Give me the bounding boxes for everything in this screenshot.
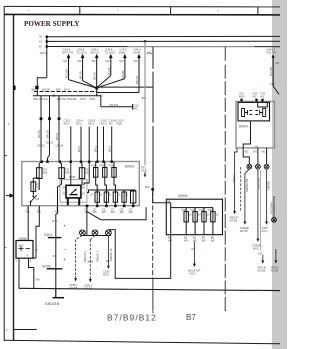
svg-text:K139: K139 [69,175,76,179]
svg-text:W2: W2 [253,150,257,154]
labels above relay box pins [239,91,266,95]
wire trunk vertical from bus taps [46,37,48,78]
svg-text:SW: SW [275,61,280,65]
svg-text:W2: W2 [245,150,249,154]
relay K139 outer housing [60,180,87,203]
svg-text:W5: W5 [93,210,97,214]
wire exit battery feed [56,206,58,237]
inline labels on entry wires [37,119,124,148]
wire diagonal col1 to junction [69,80,97,88]
svg-text:F34: F34 [91,164,96,168]
right edge drop wire [273,196,275,217]
relay coil feed wire [71,162,89,186]
svg-text:30A: 30A [65,171,70,175]
ground G01B plate [47,268,63,270]
svg-text:W5: W5 [193,238,197,242]
svg-text:W8-R: W8-R [40,51,47,55]
wire diagonal col4 to junction [97,76,111,88]
relay sub-box black [238,102,270,121]
svg-text:+: + [26,254,28,258]
terminal end bar [132,104,134,110]
harness tick mark [53,94,55,97]
power bus 1 (top) [47,35,280,37]
fuse F39 [212,208,214,235]
right terminal up arrow [272,54,275,58]
svg-text:W5: W5 [102,210,106,214]
relay K139 contact bar [70,194,78,196]
fuse F5 (row1) [105,162,107,193]
X906 internal symbol [19,246,31,251]
wire feed to lamp sockets [86,207,88,235]
lamp socket L2 [92,230,98,236]
svg-text:U9013: U9013 [46,141,54,145]
svg-text:C10: C10 [270,82,275,86]
wire trunk elbow [37,78,47,96]
divider end dot [152,312,153,313]
svg-text:X90LB-1: X90LB-1 [96,251,100,262]
svg-text:G01B: G01B [42,264,51,268]
fuse F1 (row1) [37,162,117,206]
relay K139 legs [68,198,79,206]
lamp socket L1 [80,230,112,236]
frame tick mark left mid [13,86,16,91]
svg-text:F37: F37 [190,208,195,212]
svg-text:W0.5: W0.5 [77,145,81,152]
fuse box 30905 outline [166,199,222,235]
ground stub below bus [55,289,57,298]
svg-text:30G: 30G [145,185,150,189]
relay R1 symbol [242,109,252,117]
svg-text:W0: W0 [106,259,110,263]
fuse F10 (row2) [114,190,116,192]
svg-text:SW: SW [77,59,82,63]
svg-text:SW: SW [63,59,68,63]
svg-text:W1.25R: W1.25R [65,69,69,78]
svg-text:X90RA-5B: X90RA-5B [245,179,249,192]
arrow terminal column 2 [82,58,84,81]
relay box 30904 grey outline [236,101,275,147]
svg-text:30A: 30A [43,171,48,175]
svg-text:W5: W5 [120,210,124,214]
30905 exit labels [168,235,214,239]
svg-text:W5: W5 [211,238,215,242]
svg-text:G201: G201 [44,233,52,237]
svg-text:W0.5: W0.5 [88,122,95,126]
trunk junction blob [35,86,38,89]
svg-text:X90LA-1: X90LA-1 [83,251,87,262]
svg-text:W0.5: W0.5 [64,122,71,126]
right edge lamp socket [272,217,277,222]
30905 fuse labels [182,208,214,212]
svg-text:30903: 30903 [125,165,135,169]
30905 centre drop wire with arrow [193,242,195,265]
svg-text:B60 W0.5-R: B60 W0.5-R [34,97,48,101]
svg-text:W05: W05 [88,259,94,263]
rotated labels along entry wires [37,130,112,152]
exit pads under fuse box [86,205,135,208]
arrow terminal column 6 [138,58,140,93]
svg-text:7A: 7A [37,185,40,189]
drop wire rd with arrow [266,169,268,222]
svg-text:W0.5: W0.5 [253,246,260,250]
svg-text:B2: B2 [134,106,138,110]
svg-text:W2: W2 [260,94,264,98]
wire size labels beside arrow shafts [63,59,138,63]
svg-text:W5: W5 [129,210,133,214]
svg-text:SW: SW [105,59,110,63]
wires entering fuse box from connector pads [71,127,112,162]
svg-text:BAJ-01: BAJ-01 [91,50,100,54]
svg-text:W2R: W2R [116,122,122,126]
arrow terminal column 3 [96,58,98,88]
page-ref labels above arrow terminals (6 columns) [62,48,141,55]
drop wire rc with arrow [257,169,259,239]
svg-text:M12: M12 [19,243,25,247]
lamp socket link bar [81,235,112,237]
svg-text:W2: W2 [262,150,266,154]
viewer grey margin band right [272,0,287,349]
svg-text:W0.5: W0.5 [108,145,112,152]
ground GND31B plate [53,297,64,299]
svg-text:SW: SW [35,197,40,201]
svg-text:W2: W2 [109,122,113,126]
pads on fuse box top edge [41,161,113,163]
drop wire rb with arrow [245,169,249,222]
fuse F12 (row2) [132,190,134,191]
wire exit left 1 down to X906 [27,206,29,241]
svg-text:B60: B60 [32,88,37,92]
fuse F11 (row2) [123,190,125,192]
svg-text:W0.5R: W0.5R [69,97,77,101]
svg-text:W0.5: W0.5 [80,97,87,101]
svg-text:X90A-B5: X90A-B5 [256,177,260,189]
svg-text:B60: B60 [56,88,61,92]
svg-text:B7/B9/B12: B7/B9/B12 [107,312,157,322]
svg-text:U9014: U9014 [56,144,64,148]
wire diagonal col2 to junction [83,81,97,88]
svg-text:MAIN: MAIN [119,50,126,54]
fuse value labels row2 [90,193,129,197]
svg-text:W0.5: W0.5 [103,273,110,277]
svg-text:30904: 30904 [239,124,248,128]
wire inside 30904 down [243,121,250,151]
header band divider 1 [79,7,81,15]
svg-text:SW: SW [119,59,124,63]
svg-text:W0.5R: W0.5R [79,71,83,79]
svg-text:W0.5B: W0.5B [240,229,248,233]
header band divider 3 [257,7,259,15]
svg-text:W0.5R: W0.5R [93,72,97,80]
wire col6 elbow to junction row [97,92,139,94]
svg-text:POWER SUPPLY: POWER SUPPLY [24,19,80,28]
left margin tick upper [4,155,7,157]
wire junction down jog [97,88,101,107]
left margin tick lower [4,247,6,249]
rotated connector labels right group [232,173,270,192]
grey feeder wire from bus2 [144,41,146,165]
svg-text:B7: B7 [186,313,196,322]
svg-text:F35: F35 [100,164,105,168]
exit pin labels under fuse box [27,206,133,211]
svg-text:W0.5B: W0.5B [70,286,78,290]
dashed drop from socket L1 with arrow [76,235,83,276]
svg-text:F36: F36 [182,208,187,212]
feed wire into 30905 [153,189,167,202]
wire diagonal col5 to junction [97,79,125,88]
node feeder junction dot [151,188,154,191]
svg-text:SW: SW [91,59,96,63]
svg-text:W3: W3 [168,238,172,242]
relay R2 symbol [256,109,266,117]
node bus1 tap dot [46,35,49,38]
svg-text:W2R: W2R [239,94,245,98]
fuse F6 (row1) [114,162,115,193]
wire junction horizontal to right feeder [97,86,153,88]
power bus 2 (middle) [47,40,280,42]
lamp socket L3 [106,230,112,236]
svg-text:W0.5L: W0.5L [55,132,59,140]
relay pin marks [63,186,86,196]
svg-text:F38: F38 [199,208,204,212]
fuse F4 (row1) [96,162,98,193]
header band bottom rule / inner frame top [4,13,280,16]
header band divider 2 [170,7,172,15]
svg-text:W-B: W-B [52,219,57,223]
svg-text:BACKW05: BACKW05 [270,201,274,214]
ground bus bottom [19,288,280,290]
svg-text:W1.25R: W1.25R [269,67,273,76]
harness hanger wire 3 [58,96,60,162]
node bus3 tap dot [46,45,49,48]
right diagonal wire [273,86,279,94]
svg-text:W0.5R: W0.5R [37,130,41,138]
svg-text:W0.5B: W0.5B [271,269,279,273]
svg-text:+: + [63,257,66,262]
svg-text:30905: 30905 [178,194,188,198]
bottom right arrow 1 [262,255,264,261]
svg-text:TC.MOD: TC.MOD [105,50,115,54]
divider end dot right [225,310,226,311]
svg-text:W5: W5 [184,238,188,242]
fuse F7 small (left column) [31,178,39,195]
svg-text:IGN.SW: IGN.SW [267,50,277,54]
fuse box 30903 outline [22,162,140,206]
svg-text:W5: W5 [202,238,206,242]
drop from socket L3 with arrow [107,235,109,263]
relay box top pins [242,100,263,103]
fuse F8 (row2) [95,190,136,206]
relay K139 body [66,185,81,198]
connector squiggle symbol [147,52,151,54]
switch contact dots [32,196,34,198]
svg-text:BATT+30: BATT+30 [62,50,73,54]
svg-text:X90LB-10: X90LB-10 [109,248,113,261]
black feeder wire from bus3 (with inline connector gaps) [152,47,154,190]
battery column wire [55,237,57,298]
svg-text:−: − [64,247,67,252]
svg-text:W8: W8 [36,277,40,281]
node bus2 tap dot [46,40,49,43]
harness hanger wire 1 [40,96,42,162]
dashed bracket right group [240,167,242,212]
svg-text:W0.5: W0.5 [189,272,196,276]
svg-text:W05: W05 [98,93,104,97]
svg-text:B60 W0.5: B60 W0.5 [57,97,69,101]
svg-text:W0.5-R: W0.5-R [110,103,119,107]
solid harness line [33,95,97,97]
svg-text:W0.5G: W0.5G [135,76,139,84]
svg-text:W-R: W-R [142,169,147,173]
grey harness wire right [260,170,262,251]
svg-text:W1.25: W1.25 [107,67,111,75]
component X906 box [16,241,33,259]
svg-text:W0.5: W0.5 [100,122,107,126]
drop wire ra with arrow [235,148,237,211]
fuse value labels row1 [43,164,114,175]
harness hanger wire 2 [48,96,50,162]
svg-text:W2: W2 [252,94,256,98]
svg-text:U9012: U9012 [37,144,45,148]
grey feeder end arrow [144,172,146,175]
fuse F37 [194,208,196,235]
arrow terminal column 1 [67,54,141,92]
svg-text:W0.5: W0.5 [261,229,268,233]
switch contact symbol [30,195,36,206]
internal distribution bus [87,190,136,193]
outer page border bottom [4,340,280,344]
inner frame left border [13,15,15,340]
arrow terminal column 4 [110,58,112,76]
fuse F9 (row2) [105,190,107,192]
connector pads on entry wires [40,117,61,120]
lamp socket R2 [256,164,261,169]
rotated connector labels beside socket drops [83,248,113,262]
ground G201 plate [48,237,62,239]
node grey-line tap dot on bus2 [144,40,147,43]
svg-text:W0.5: W0.5 [76,122,83,126]
dashed drop from socket L2 with arrow [90,235,95,276]
lamp socket R3 [264,164,269,169]
svg-text:SW: SW [134,59,139,63]
svg-text:W0.5B: W0.5B [229,219,237,223]
svg-text:W0.5: W0.5 [64,88,71,92]
wire return loop from 30905 [108,230,170,279]
svg-text:F36: F36 [109,164,114,168]
rotated wire colour labels along shafts [65,67,140,84]
bottom right arrow 2 [275,249,277,261]
svg-text:W0.5B: W0.5B [46,130,50,138]
wire under-box link diagonal [87,207,146,219]
relay sub-box notch [258,102,268,107]
section divider dash-dot right [224,47,226,310]
X906 pin wires down [19,258,34,289]
dashed harness line [34,91,97,93]
30905 internal bus [166,203,213,208]
svg-text:W0.5B: W0.5B [257,269,265,273]
30905 straight drop [170,208,172,235]
svg-text:F39: F39 [208,208,213,212]
svg-text:W0.85: W0.85 [121,70,125,78]
outer page border top [4,5,280,8]
svg-text:GND31B: GND31B [45,302,60,306]
svg-text:+: + [63,224,66,229]
svg-text:W5: W5 [111,210,115,214]
left margin arrow marker [6,194,13,197]
wire exit left 2 staircase down [33,206,39,258]
svg-text:LAMP: LAMP [133,50,140,54]
svg-text:W05: W05 [90,97,96,101]
fuse F3 (row1) [81,162,82,186]
section divider dash-dot left [152,191,154,278]
svg-text:15A: 15A [258,251,263,255]
socket feed labels [245,150,266,154]
fuse F2 (row1) [58,162,62,206]
lamp socket R1 [247,164,269,169]
frame scale line bottom left [14,329,37,331]
outer page border left [3,6,5,341]
power bus 3 (bottom) [47,46,280,48]
wires from 30904 bottom to sockets [243,148,266,164]
relay K139 contact arm [71,190,76,194]
wire horizontal to terminal [101,106,133,108]
svg-text:W0.5: W0.5 [93,145,97,152]
svg-text:B2: B2 [142,96,146,100]
svg-text:TC.MOD: TC.MOD [77,50,87,54]
arrow terminal column 5 [124,58,126,79]
left margin tick mid [8,123,10,125]
fuse F38 [203,208,205,235]
svg-text:W0.5R: W0.5R [42,88,50,92]
node main junction dot [95,86,98,89]
fuse F36 [184,208,215,235]
